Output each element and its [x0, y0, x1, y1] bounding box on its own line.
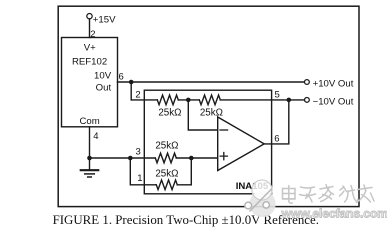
op-amp minus sign	[220, 129, 228, 131]
resistor R3 25k	[155, 153, 176, 163]
svg-text:+15V: +15V	[93, 14, 116, 25]
svg-text:5: 5	[274, 90, 279, 101]
node between R1 R2	[186, 98, 191, 103]
svg-text:+10V Out: +10V Out	[313, 79, 354, 90]
REF102 U1 box	[62, 38, 118, 127]
svg-text:V+: V+	[84, 42, 96, 53]
ground	[89, 158, 91, 170]
svg-text:6: 6	[274, 134, 279, 145]
wire +15V to REF102 pin 2	[89, 19, 91, 38]
wire pin6 +10V rail	[118, 81, 305, 83]
svg-text:25kΩ: 25kΩ	[200, 107, 223, 118]
svg-text:3: 3	[136, 147, 141, 158]
terminal -10V Out	[305, 98, 310, 103]
resistor R4 25k	[156, 180, 177, 190]
svg-text:2: 2	[135, 89, 140, 100]
svg-text:1: 1	[137, 173, 142, 184]
svg-text:Com: Com	[79, 116, 99, 127]
svg-text:2: 2	[90, 29, 95, 40]
node Com junction	[87, 156, 92, 161]
wire Com to INA105 pin3	[90, 157, 156, 159]
svg-text:FIGURE 1. Precision Two-Chip ±: FIGURE 1. Precision Two-Chip ±10.0V Refe…	[53, 213, 319, 227]
svg-text:Out: Out	[96, 83, 112, 94]
wire R1 to R2	[178, 99, 199, 101]
svg-text:10V: 10V	[94, 71, 112, 82]
node pin3/pin1 branch	[128, 156, 133, 161]
wire R1R2 node to inverting input	[188, 100, 217, 130]
wire REF102 Com pin4 down	[89, 127, 91, 158]
watermark logo	[245, 180, 276, 217]
wire R2 to pin5 and -10V Out	[220, 99, 304, 101]
svg-text:6: 6	[119, 72, 124, 83]
svg-text:4: 4	[93, 131, 98, 142]
wire pin6 down to INA105 pin2	[130, 82, 132, 100]
svg-text:25kΩ: 25kΩ	[155, 168, 178, 179]
node pin6 junction	[129, 80, 134, 85]
op-amp plus sign	[220, 153, 227, 160]
resistor R1 25k	[157, 95, 178, 105]
op-amp A1	[218, 117, 265, 171]
wire pin2 into R1	[131, 99, 157, 101]
INA105 U2 box	[144, 90, 271, 194]
watermark chinese chars	[283, 185, 375, 204]
svg-text:25kΩ: 25kΩ	[155, 140, 178, 151]
figure border	[58, 6, 359, 206]
terminal +15V	[87, 14, 92, 19]
svg-text:REF102: REF102	[72, 57, 107, 68]
wire R4 up to plus node	[177, 158, 191, 185]
wire branch down to pin1	[130, 158, 156, 185]
resistor R2 25k	[199, 95, 220, 105]
wire op-amp output up to -10V node	[264, 100, 289, 144]
svg-text:−10V Out: −10V Out	[313, 96, 354, 107]
terminal +10V Out	[305, 80, 310, 85]
wire R3 to noninverting input	[176, 157, 217, 159]
node -10V junction	[287, 98, 292, 103]
svg-text:25kΩ: 25kΩ	[158, 107, 181, 118]
node plus-input junction	[189, 156, 194, 161]
